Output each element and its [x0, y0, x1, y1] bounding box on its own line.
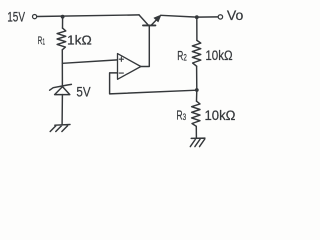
wire R1 top lead: [62, 17, 64, 29]
svg-text:R2: R2: [177, 48, 187, 64]
transistor Q1 base bar: [143, 24, 155, 26]
svg-text:R3: R3: [176, 108, 186, 124]
svg-text:1kΩ: 1kΩ: [67, 34, 92, 48]
transistor Q1 collector lead: [139, 15, 148, 25]
zener diode D1 cathode bar: [50, 84, 72, 90]
ground right: [190, 138, 205, 147]
svg-text:R1: R1: [38, 35, 46, 47]
ground left: [50, 125, 70, 132]
wire R3 top lead: [196, 90, 198, 101]
resistor R1: [57, 28, 66, 50]
op-amp minus sign: [119, 72, 123, 74]
wire R3 bottom to ground: [195, 126, 197, 138]
wire top rail left (15V to transistor collector): [37, 15, 139, 17]
svg-text:Vo: Vo: [227, 8, 243, 23]
op-amp U1: [118, 54, 141, 80]
transistor Q1 emitter arrow: [154, 15, 161, 22]
junction node R1 top: [61, 15, 65, 19]
wire node to op-amp non-inverting input: [63, 60, 118, 63]
terminal Vo output: [218, 15, 222, 19]
junction node R2 top: [195, 15, 199, 19]
wire R2 top lead: [196, 17, 198, 40]
svg-text:15V: 15V: [7, 10, 25, 26]
transistor Q1 emitter lead: [151, 19, 157, 25]
terminal 15V input: [33, 15, 37, 19]
resistor R3: [192, 101, 200, 126]
wire R1 bottom to zener node: [61, 50, 63, 86]
wire R2 bottom to feedback node: [196, 66, 198, 90]
op-amp plus sign: [119, 57, 123, 61]
wire op-amp output to transistor base: [141, 26, 150, 67]
resistor R2: [192, 40, 201, 66]
junction node feedback (R2/R3): [195, 88, 199, 92]
svg-text:10kΩ: 10kΩ: [205, 108, 236, 123]
wire zener anode to ground: [61, 95, 63, 125]
wire top rail right (emitter to Vo): [161, 15, 219, 17]
zener diode D1 anode triangle: [55, 87, 70, 95]
svg-text:5V: 5V: [76, 85, 90, 100]
wire inverting input feedback: [110, 73, 197, 94]
svg-text:10kΩ: 10kΩ: [205, 48, 232, 63]
